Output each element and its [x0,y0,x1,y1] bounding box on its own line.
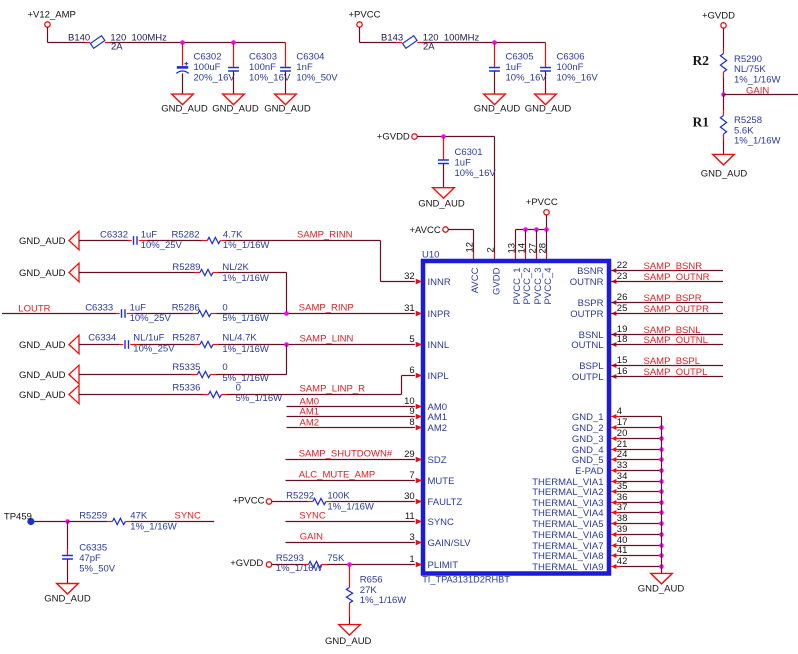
svg-text:24: 24 [617,449,628,460]
svg-text:47pF: 47pF [79,553,101,564]
pin 7 MUTE [409,470,454,487]
svg-text:1%_1/16W: 1%_1/16W [327,502,374,513]
power symbol +GVDD (PLIMIT) [230,558,271,569]
svg-text:1nF: 1nF [296,62,313,73]
pin 23 OUTNR [570,271,628,288]
wire net SAMP_BSPR [611,293,723,304]
svg-text:26: 26 [617,292,628,303]
svg-text:GND_AUD: GND_AUD [19,340,66,351]
test point TP459 [4,511,35,525]
wire R5292 to pin 30 [326,501,415,503]
svg-text:10%_25V: 10%_25V [133,344,175,355]
svg-text:4.7K: 4.7K [223,229,243,240]
pin number 27 [527,243,538,254]
svg-text:OUTNR: OUTNR [570,277,604,288]
svg-text:R5259: R5259 [79,510,107,521]
pin 11 SYNC [405,511,454,528]
svg-text:100uF: 100uF [194,62,221,73]
svg-text:1uF: 1uF [141,229,158,240]
svg-text:SAMP_OUTPR: SAMP_OUTPR [644,304,710,315]
wire GVDD to pin 2 [494,137,496,260]
svg-text:20: 20 [617,428,628,439]
svg-text:GVDD: GVDD [491,267,502,295]
junction GND bus row 41 [659,553,664,558]
wire net GAIN [724,86,798,97]
wire net AM0 to pin 10 [287,396,415,407]
svg-text:5: 5 [409,334,414,345]
junction GND bus row 39 [659,532,664,537]
wire R5258 to ground [723,134,725,154]
pin stub PVCC_4 [546,230,548,260]
power symbol +GVDD (C6301) [377,132,417,143]
junction at C6302 [180,40,185,45]
svg-text:PLIMIT: PLIMIT [428,560,459,571]
junction row4 node [284,342,289,347]
svg-text:35: 35 [617,481,628,492]
svg-text:10%_16V: 10%_16V [455,168,497,179]
svg-text:SAMP_OUTNL: SAMP_OUTNL [644,335,708,346]
svg-text:GND_AUD: GND_AUD [525,104,572,115]
pin 21 GND_4 [572,439,628,456]
resistor R5282 [172,229,270,251]
pin name PVCC_4 [543,268,554,305]
pin 17 GND_2 [572,417,628,434]
svg-text:42: 42 [617,556,628,567]
svg-text:29: 29 [404,449,415,460]
svg-text:C6303: C6303 [249,51,277,62]
wire junction to R5259 [68,521,113,523]
svg-text:+V12_AMP: +V12_AMP [28,10,76,21]
wire pin 40 to GND bus [611,545,661,547]
svg-text:14: 14 [516,243,527,254]
svg-text:TI_TPA3131D2RHBT: TI_TPA3131D2RHBT [422,575,510,585]
svg-text:SDZ: SDZ [428,455,447,466]
svg-text:+AVCC: +AVCC [410,225,441,236]
ferrite bead B143 [381,32,479,52]
pin stub PVCC_2 [525,230,527,260]
svg-text:GAIN: GAIN [300,532,323,543]
pin 30 FAULTZ [404,491,462,508]
junction TP459 node [65,519,70,524]
resistor R5292 [286,491,374,513]
pin 34 THERMAL_VIA1 [532,471,627,488]
op-amp U10 TI_TPA3131D2RHBT body [422,250,609,585]
svg-text:SAMP_OUTPL: SAMP_OUTPL [644,367,708,378]
pin 4 GND_1 [572,406,622,423]
pin 18 OUTNL [571,334,627,351]
pin 15 BSPL [579,355,627,372]
pin stub PVCC_3 [536,230,538,260]
resistor R5289 [172,262,269,284]
svg-text:U10: U10 [422,250,439,261]
wire net ALC_MUTE_AMP to pin 7 [286,470,415,481]
svg-text:2: 2 [485,247,496,252]
svg-text:NL/2K: NL/2K [222,262,249,273]
wire net SAMP_LINN to pin 5 [213,334,415,345]
wire net SAMP_OUTNL [611,335,723,346]
svg-text:100nF: 100nF [249,62,276,73]
svg-text:5%_1/16W: 5%_1/16W [222,313,269,324]
pin number 28 [537,243,548,254]
svg-text:AVCC: AVCC [470,267,481,293]
junction GND bus row 17 [659,425,664,430]
svg-text:22: 22 [617,260,628,271]
ground port GND_AUD row5 [19,365,79,384]
wire +GVDD node [417,136,494,138]
wire net AM2 to pin 8 [287,417,415,428]
wire pin 36 to GND bus [611,502,661,504]
svg-text:GND_1: GND_1 [572,412,604,423]
svg-text:GAIN: GAIN [746,86,769,97]
power symbol +PVCC (top) [349,10,381,28]
svg-text:FAULTZ: FAULTZ [428,497,463,508]
svg-text:AM2: AM2 [428,423,448,434]
svg-text:+PVCC: +PVCC [526,197,558,208]
svg-text:30: 30 [404,491,415,502]
pin name PVCC_3 [533,268,544,305]
svg-text:1%_1/16W: 1%_1/16W [222,344,269,355]
svg-text:GND_AUD: GND_AUD [44,594,91,605]
svg-text:SAMP_LINN: SAMP_LINN [300,334,354,345]
svg-text:GAIN/SLV: GAIN/SLV [428,538,472,549]
svg-text:C6333: C6333 [85,303,113,314]
svg-text:R1: R1 [693,114,710,129]
svg-text:11: 11 [405,511,415,522]
wire net SAMP_RINN to pin 32 [220,229,415,281]
wire pin 34 to GND bus [611,481,661,483]
svg-text:0: 0 [236,382,241,393]
svg-text:C6301: C6301 [455,147,483,158]
svg-text:GND_3: GND_3 [572,434,604,445]
wire net SYNC (left) [125,510,214,521]
svg-text:31: 31 [404,303,415,314]
wire +PVCC bus [516,215,547,230]
svg-text:41: 41 [617,545,628,556]
svg-text:GND_AUD: GND_AUD [325,636,372,647]
pin number 2 [485,247,496,252]
pin 10 AM0 [404,396,447,413]
capacitor C6303 [228,43,291,95]
svg-text:GND_AUD: GND_AUD [474,104,521,115]
svg-text:+GVDD: +GVDD [702,11,735,22]
svg-text:BSNR: BSNR [577,266,604,277]
wire pin 37 to GND bus [611,512,661,514]
wire pin 41 to GND bus [611,555,661,557]
pin 25 OUTPR [570,303,627,320]
svg-text:NL/4.7K: NL/4.7K [222,333,257,344]
svg-text:32: 32 [404,271,415,282]
wire TP459 to junction [35,521,68,523]
svg-text:BSPR: BSPR [578,298,604,309]
resistor R5293 [276,553,345,574]
svg-text:SAMP_BSPL: SAMP_BSPL [644,356,701,367]
svg-text:B143: B143 [381,32,403,43]
pin 6 INPL [409,365,448,382]
svg-text:OUTPL: OUTPL [572,372,604,383]
svg-text:47K: 47K [130,510,148,521]
svg-text:AM2: AM2 [300,417,320,428]
svg-text:MUTE: MUTE [428,476,455,487]
svg-text:OUTNL: OUTNL [571,340,603,351]
wire +GVDD to R5293 [272,564,309,566]
junction PVCC_2 [523,227,528,232]
wire pin 38 to GND bus [611,523,661,525]
svg-text:AM1: AM1 [300,406,320,417]
svg-text:SYNC: SYNC [299,511,326,522]
svg-text:10%_25V: 10%_25V [130,313,172,324]
wire row4 gnd to C6334 [79,344,123,346]
wire bead to +AVCC rail [417,42,545,44]
pin 5 INNL [409,334,449,351]
junction row3 node [284,311,289,316]
svg-text:10%_16V: 10%_16V [557,72,599,83]
svg-text:INPR: INPR [428,309,451,320]
resistor R5335 [172,362,269,384]
junction GND bus row 37 [659,510,664,515]
wire net SAMP_BSPL [611,356,723,367]
pin 36 THERMAL_VIA3 [532,492,627,509]
wire C6332 to R5282 [139,240,208,242]
svg-text:17: 17 [617,417,628,428]
power symbol +V12_AMP [28,10,76,28]
ground GND_AUD (C6305) [474,94,521,115]
capacitor C6333 [85,303,171,325]
svg-text:BSPL: BSPL [579,361,603,372]
svg-text:2A: 2A [111,42,123,53]
svg-text:INPL: INPL [428,371,449,382]
svg-text:GND_AUD: GND_AUD [19,370,66,381]
svg-text:SYNC: SYNC [175,510,202,521]
wire C6334 to R5287 [130,344,200,346]
pin 29 SDZ [404,449,447,466]
wire pin 21 to GND bus [611,449,661,451]
svg-text:E-PAD: E-PAD [575,466,603,477]
svg-text:1%_1/16W: 1%_1/16W [130,521,177,532]
ground GND_AUD (C6301) [418,188,465,210]
pin 24 GND_5 [572,449,628,466]
pin 1 PLIMIT [409,554,458,571]
wire PLIMIT node to R656 [349,565,351,588]
svg-text:SAMP_RINN: SAMP_RINN [297,229,353,240]
svg-text:R5287: R5287 [172,333,200,344]
svg-text:0: 0 [222,362,227,373]
wire pin 24 to GND bus [611,459,661,461]
svg-text:C6305: C6305 [506,51,534,62]
pin 32 INNR [404,271,451,288]
capacitor C6306 [540,43,598,95]
svg-text:R5292: R5292 [286,491,314,502]
capacitor C6305 [489,43,547,95]
svg-text:SAMP_BSPR: SAMP_BSPR [644,293,702,304]
svg-text:1%_1/16W: 1%_1/16W [360,595,407,606]
svg-text:+PVCC: +PVCC [233,496,265,507]
ground GND_AUD (C6335) [44,584,91,605]
resistor R5336 [172,382,282,404]
wire R5293 to pin 1 [322,564,415,566]
wire pin 35 to GND bus [611,491,661,493]
ground GND_AUD (C6304) [264,94,311,115]
wire node GAIN to R5258 [723,95,725,116]
svg-text:AM1: AM1 [428,412,448,423]
svg-text:10%_25V: 10%_25V [141,240,183,251]
power symbol +PVCC (pins) [526,197,558,215]
svg-text:+PVCC: +PVCC [349,10,381,21]
svg-text:THERMAL_VIA2: THERMAL_VIA2 [532,487,603,498]
svg-text:LOUTR: LOUTR [18,303,50,314]
svg-text:INNR: INNR [428,277,451,288]
wire net SYNC to pin 11 [286,511,415,522]
svg-text:1uF: 1uF [130,303,147,314]
ground port GND_AUD row1 [19,231,79,250]
junction at C6305 [492,40,497,45]
pin 8 AM2 [409,417,447,434]
svg-text:4: 4 [617,406,622,417]
svg-text:6: 6 [409,365,414,376]
svg-text:1uF: 1uF [455,158,472,169]
svg-text:THERMAL_VIA9: THERMAL_VIA9 [532,562,603,573]
pin 38 THERMAL_VIA5 [532,513,627,530]
pin 40 THERMAL_VIA7 [532,535,627,552]
wire R5290 to node GAIN [723,72,725,95]
svg-text:28: 28 [537,243,548,254]
svg-text:GND_AUD: GND_AUD [19,236,66,247]
wire pin 20 to GND bus [611,438,661,440]
ground GND_AUD (R656) [325,625,372,647]
capacitor C6332 [100,229,183,251]
pin 41 THERMAL_VIA8 [532,545,627,562]
svg-text:C6332: C6332 [100,229,128,240]
wire pin 17 to GND bus [611,427,661,429]
capacitor C6304 [280,43,338,95]
svg-text:0: 0 [222,303,227,314]
svg-text:GND_AUD: GND_AUD [19,390,66,401]
junction GND bus row 34 [659,479,664,484]
pin 16 OUTPL [572,366,628,383]
pin name GVDD [491,267,502,295]
svg-text:10%_50V: 10%_50V [296,72,338,83]
wire net SAMP_LINP_R to pin 6 [222,376,415,395]
pin number 12 [464,242,475,253]
pin 20 GND_3 [572,428,628,445]
svg-text:+GVDD: +GVDD [230,558,263,569]
svg-text:C6335: C6335 [79,543,107,554]
wire bead to +PVCC rail [105,42,286,44]
capacitor C6334 [88,333,175,355]
wire net SAMP_BSNR [611,261,723,272]
pin number 14 [516,243,527,254]
svg-text:33: 33 [617,460,628,471]
svg-text:3: 3 [409,532,414,543]
wire row1 gnd to C6332 [79,240,132,242]
svg-text:7: 7 [409,470,414,481]
pin 9 AM1 [409,406,447,423]
wire row2 gnd to R5289 [79,272,200,274]
svg-text:THERMAL_VIA8: THERMAL_VIA8 [532,551,603,562]
svg-text:NL/1uF: NL/1uF [133,333,164,344]
wire net AM1 to pin 9 [287,406,415,417]
svg-text:SYNC: SYNC [428,517,455,528]
wire row6 gnd to R5336 [79,394,209,396]
svg-text:37: 37 [617,502,628,513]
svg-text:SAMP_RINP: SAMP_RINP [299,303,354,314]
svg-text:1%_1/16W: 1%_1/16W [223,240,270,251]
svg-text:23: 23 [617,271,628,282]
ground GND_AUD (divider) [701,154,748,179]
svg-text:39: 39 [617,524,628,535]
svg-text:GND_AUD: GND_AUD [161,104,208,115]
wire R656 to ground [349,603,351,625]
svg-text:R5336: R5336 [172,382,200,393]
svg-text:100nF: 100nF [557,62,584,73]
svg-text:R5282: R5282 [172,229,200,240]
wire net SAMP_OUTPR [611,304,723,315]
capacitor C6302 (polarized) [176,43,235,95]
svg-text:C6334: C6334 [88,333,116,344]
pin 19 BSNL [579,324,628,341]
junction PLIMIT node [347,562,352,567]
svg-text:ALC_MUTE_AMP: ALC_MUTE_AMP [299,470,376,481]
svg-text:20%_16V: 20%_16V [194,72,236,83]
svg-text:C6306: C6306 [557,51,585,62]
pin 39 THERMAL_VIA6 [532,524,627,541]
svg-text:GND_AUD: GND_AUD [638,584,685,595]
svg-text:SAMP_SHUTDOWN#: SAMP_SHUTDOWN# [299,449,393,460]
capacitor C6301 [438,137,496,188]
svg-text:5%_50V: 5%_50V [79,564,116,575]
pin 35 THERMAL_VIA2 [532,481,627,498]
svg-text:THERMAL_VIA4: THERMAL_VIA4 [532,508,603,519]
ground GND_AUD (C6302) [161,94,208,115]
resistor R5258 [693,114,781,146]
svg-text:10%_16V: 10%_16V [506,72,548,83]
svg-text:OUTPR: OUTPR [570,309,603,320]
svg-text:SAMP_OUTNR: SAMP_OUTNR [644,272,710,283]
svg-text:PVCC_4: PVCC_4 [543,268,554,305]
svg-text:1%_1/16W: 1%_1/16W [734,135,781,146]
pin 22 BSNR [577,260,627,277]
svg-text:GND_AUD: GND_AUD [418,199,465,210]
svg-text:1%_1/16W: 1%_1/16W [222,273,269,284]
pin 3 GAIN/SLV [409,532,471,549]
wire net SAMP_RINP to pin 31 [211,303,415,314]
pin name AVCC [470,267,481,293]
wire +PVCC to bead B143 [360,27,403,42]
junction at C6303 [231,40,236,45]
junction GND bus row 38 [659,521,664,526]
wire pin 4 to GND bus [611,416,661,418]
svg-text:SAMP_LINP_R: SAMP_LINP_R [300,384,366,395]
wire +PVCC to R5292 [272,501,313,503]
junction GND bus row 33 [659,468,664,473]
pin 26 BSPR [578,292,628,309]
svg-text:R2: R2 [693,53,710,68]
ground GND_AUD (bus) [638,573,685,594]
pin number 13 [506,243,517,254]
resistor R656 [346,574,406,606]
junction GND bus row 36 [659,500,664,505]
svg-text:75K: 75K [327,553,345,564]
svg-text:INNL: INNL [428,340,450,351]
wire +AVCC to pin 12 [448,230,473,260]
svg-text:THERMAL_VIA6: THERMAL_VIA6 [532,530,603,541]
power symbol +PVCC (FAULTZ) [233,496,272,507]
wire pin 39 to GND bus [611,534,661,536]
ground GND_AUD (C6306) [525,94,572,115]
svg-text:10%_16V: 10%_16V [249,72,291,83]
svg-text:GND_AUD: GND_AUD [701,168,748,179]
wire GND bus vertical [661,417,663,574]
wire +GVDD to R5290 [723,28,725,54]
